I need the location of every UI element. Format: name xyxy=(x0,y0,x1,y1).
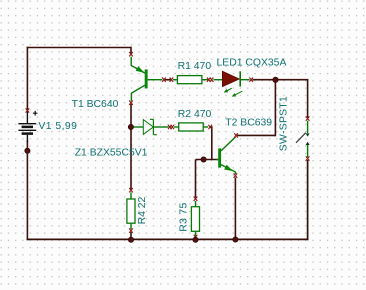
LED1 cathode bar xyxy=(239,71,241,86)
switch SW-SPST1 xyxy=(296,116,310,160)
resistor R2 xyxy=(171,123,213,131)
pin marker R3 bottom xyxy=(194,235,198,239)
R4 top lead xyxy=(130,192,132,199)
Z1 cathode bar xyxy=(150,119,157,134)
pin marker R3 top xyxy=(194,197,198,201)
R3 bottom lead xyxy=(195,231,197,236)
svg-text:R2 470: R2 470 xyxy=(178,109,212,120)
LED LED1 xyxy=(210,71,253,96)
R4 bottom lead xyxy=(130,223,132,229)
wire T2 emitter column xyxy=(234,178,236,241)
pin marker T1 base xyxy=(162,78,166,82)
wire left column lower xyxy=(26,141,28,241)
pin marker T2 base under node xyxy=(202,157,206,161)
LED1 anode lead xyxy=(214,79,223,81)
T1 bar xyxy=(145,69,148,88)
svg-text:T2 BC639: T2 BC639 xyxy=(225,118,272,129)
pin marker LED anode xyxy=(210,78,214,82)
T2 bar xyxy=(218,148,221,167)
wire top rail xyxy=(27,47,131,49)
wire T2 collector row xyxy=(237,134,275,136)
T1 base lead xyxy=(148,79,163,81)
pin marker R2 left xyxy=(171,125,175,129)
wire T1 base to R1 xyxy=(165,79,171,81)
R3 body xyxy=(191,207,199,232)
svg-text:R3 75: R3 75 xyxy=(178,202,189,231)
wire R2 to T2 base column xyxy=(210,127,212,160)
SW lever xyxy=(296,133,306,143)
pin marker T2 emitter xyxy=(234,173,238,177)
pin marker battery top xyxy=(26,108,30,112)
R2 left lead xyxy=(174,126,179,128)
T2 base lead xyxy=(217,159,219,161)
T2 collector lead xyxy=(221,137,236,151)
R2 right lead xyxy=(203,126,208,128)
R1 left lead xyxy=(173,79,177,81)
SW bottom contact xyxy=(306,142,310,145)
SW top contact xyxy=(307,121,309,133)
LED1 triangle xyxy=(222,71,239,86)
resistor R4 xyxy=(127,188,135,233)
pin marker SW top xyxy=(306,116,310,120)
svg-text:R4 22: R4 22 xyxy=(137,196,148,224)
T2 emitter lead xyxy=(221,165,236,174)
junction R4 bottom xyxy=(128,237,133,242)
R1 body xyxy=(177,76,202,84)
junction node Z1/R4/T1 xyxy=(128,124,133,129)
junction T2 emitter bottom xyxy=(233,237,238,242)
junction LED node xyxy=(273,77,278,82)
wire left column upper xyxy=(26,47,28,110)
R4 body xyxy=(127,199,135,223)
battery V1 xyxy=(18,111,37,142)
junction battery bottom xyxy=(25,148,30,153)
R1 right lead xyxy=(202,79,208,81)
pin marker R4 top xyxy=(129,188,133,192)
wire node to R4 xyxy=(130,127,132,189)
zener diode Z1 xyxy=(133,119,172,134)
wire R3 bottom xyxy=(195,235,197,240)
wire T2 base row xyxy=(196,159,219,161)
pin marker Z1 cathode xyxy=(168,125,172,129)
transistor T1 BC640 xyxy=(129,52,173,105)
wire T1 collector to node xyxy=(130,104,132,127)
pin marker T1 emitter xyxy=(129,52,133,56)
transistor T2 BC639 xyxy=(202,133,238,178)
R2 body xyxy=(179,123,204,131)
wire T1 emitter top xyxy=(130,47,132,53)
Z1 triangle xyxy=(143,120,153,135)
pin marker R1 right xyxy=(207,78,211,82)
pin marker T2 collector xyxy=(234,133,238,137)
wire bottom rail xyxy=(27,238,309,240)
LED1 cathode lead xyxy=(241,79,250,81)
R3 top lead xyxy=(195,201,197,207)
svg-text:R1 470: R1 470 xyxy=(178,61,212,72)
junction R3 bottom xyxy=(193,237,198,242)
LED light arrows xyxy=(226,88,232,91)
T2 emitter arrow xyxy=(224,165,233,171)
wire right column lower xyxy=(307,160,309,240)
wire top right horizontal xyxy=(253,79,309,81)
junction T2 base node xyxy=(201,157,206,162)
resistor R1 xyxy=(173,76,211,84)
svg-text:LED1 CQX35A: LED1 CQX35A xyxy=(217,58,287,69)
svg-text:V1 5,99: V1 5,99 xyxy=(38,121,77,132)
pin marker R2 right xyxy=(208,125,212,129)
resistor R3 xyxy=(191,197,199,240)
wire right column upper xyxy=(307,80,309,118)
Z1 cathode lead xyxy=(154,126,169,128)
svg-text:SW-SPST1: SW-SPST1 xyxy=(278,96,289,151)
wire R4 bottom xyxy=(130,232,132,240)
pin marker LED cathode xyxy=(249,78,253,82)
T1 collector lead xyxy=(131,85,145,101)
svg-text:Z1 BZX55C5V1: Z1 BZX55C5V1 xyxy=(75,147,148,158)
Z1 anode lead xyxy=(133,126,143,128)
pin marker R4 bottom xyxy=(129,228,133,232)
T1 emitter lead xyxy=(131,57,145,73)
pin marker SW bottom xyxy=(306,156,310,160)
wire LED node down xyxy=(274,80,275,136)
wire to R3 xyxy=(195,160,197,198)
T1 emitter arrow xyxy=(136,66,145,73)
pin marker T1 collector xyxy=(129,101,133,105)
svg-text:T1 BC640: T1 BC640 xyxy=(72,99,119,110)
